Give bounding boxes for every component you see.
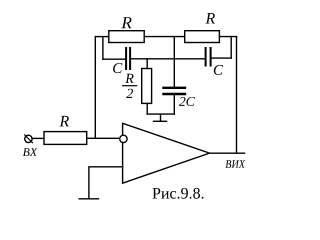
capacitor C3 (2C shunt) [164,87,186,89]
label 2C of C3 [179,97,195,106]
wire: terminal to R4 [32,137,44,139]
wire: C row right segment [212,57,232,59]
op-amp U1 inverting input circle [120,135,127,142]
op-amp U1 triangle [123,123,210,183]
wire: R4 to op-amp inverting input [87,137,120,139]
label C of C1 [113,63,122,73]
ground: twin-T ground bar [154,120,167,122]
wire: C row left segment [103,58,125,60]
wire: left node vertical (twin-T left side down to inverting input) [94,37,96,139]
wire: middle vertical (R1-R2 midpoint down to C3) [173,37,175,87]
wire: C row middle segment [131,58,205,60]
caption Рис.9.8. [153,188,204,199]
wire: R2 to right node [219,36,236,38]
wire: R3 top stub [146,59,148,69]
wire: non-inverting input to ground [89,167,123,198]
resistor R3 (R/2 shunt) [142,69,152,104]
label ВХ [23,148,38,156]
ground: op-amp ground bar [79,198,98,200]
resistor R2 (top right R) [185,31,220,43]
wire: top-left stub to R1 [95,36,109,38]
resistor R4 (input R) [44,132,87,145]
label R of R1 [121,17,131,28]
capacitor C2 (right C) [205,48,207,66]
wire: left inner vertical (R row to C row) [102,37,104,60]
resistor R1 (top left R) [109,31,144,43]
capacitor C1 (left C) [125,48,127,69]
wire: C3 bottom stub [173,95,175,114]
wire: R3 bottom stub [146,103,148,114]
label R/2 of R3 [125,74,133,83]
wire: between R1 and R2 [144,36,185,38]
terminal: input terminal ВХ [25,135,32,142]
wire: op-amp output [210,152,245,154]
label R of R2 [205,13,215,24]
label C of C2 [214,65,223,75]
wire: bottom wire joining R3 and C3 [147,113,174,115]
wire: right inner vertical (R row to C row) [230,37,232,59]
label ВИХ [225,160,245,168]
ground: twin-T ground stub [160,114,162,121]
label R of R4 [59,116,69,127]
wire: right node vertical (twin-T right side down to output) [236,37,238,154]
